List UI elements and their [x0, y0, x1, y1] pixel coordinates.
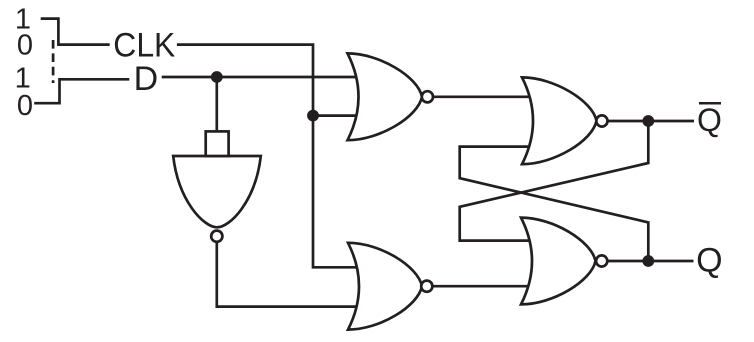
inverter (NAND-style) gate body [173, 156, 261, 227]
NOR4 output bubble [596, 255, 607, 266]
svg-text:0: 0 [17, 90, 33, 122]
wire CLK stub to upper NOR bottom input [313, 114, 362, 117]
junction dot on D line [211, 71, 223, 83]
svg-text:Q: Q [697, 102, 722, 138]
svg-text:D: D [134, 60, 159, 98]
wire NOR4 output to Q [607, 260, 693, 263]
wire CLK right segment, down and into lower NOR top input [177, 45, 362, 268]
inverter input box [206, 131, 229, 156]
dashed timing line [52, 40, 55, 83]
wire inverter output down and right to lower NOR bottom input [217, 242, 362, 307]
junction dot at Q node [642, 255, 654, 267]
svg-text:CLK: CLK [113, 26, 175, 64]
wire Qbar feedback to NOR4 top input [460, 121, 649, 241]
NOR gate G1 (upper left) body [348, 53, 423, 140]
inverter output bubble [211, 231, 222, 242]
NOR2 output bubble [421, 281, 432, 292]
wire NOR3 output to Qbar [608, 120, 694, 123]
junction dot on CLK vertical [307, 110, 319, 122]
svg-text:0: 0 [17, 30, 33, 62]
D level bracket (1/0 step) [34, 79, 129, 103]
wire NOR2 output to NOR4 bottom input [432, 285, 536, 288]
NOR gate G4 (lower right) body [521, 218, 596, 305]
wire D right segment to upper NOR top input [162, 76, 362, 79]
wire Q feedback to NOR3 bottom input [460, 147, 649, 261]
CLK level bracket (1/0 step) [41, 19, 110, 45]
wire NOR1 output to NOR3 top input [433, 95, 536, 98]
NOR3 output bubble [596, 115, 607, 126]
NOR gate G3 (upper right) body [522, 77, 597, 164]
wire D down to inverter box [215, 77, 218, 132]
NOR1 output bubble [422, 91, 433, 102]
junction dot at Qbar node [642, 115, 654, 127]
NOR gate G2 (lower left) body [348, 243, 422, 330]
overbar of Qbar [699, 102, 721, 105]
svg-text:Q: Q [696, 242, 722, 280]
